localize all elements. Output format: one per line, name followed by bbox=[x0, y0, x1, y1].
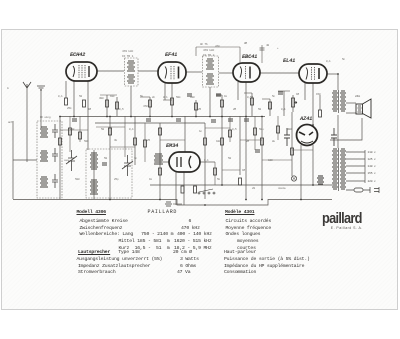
wire bbox=[144, 123, 146, 162]
capacitor C1 bbox=[52, 124, 58, 138]
output transformer T3 bbox=[332, 90, 346, 113]
resistor R16 bbox=[181, 186, 184, 193]
wire bbox=[221, 95, 223, 116]
wire EBC41 cathode long drop bbox=[245, 82, 247, 199]
wire bbox=[221, 116, 223, 185]
wire bbox=[59, 116, 61, 199]
antenna bbox=[23, 82, 31, 88]
junction J10 bbox=[261, 116, 263, 118]
capacitor C5 bbox=[146, 119, 151, 121]
resistor R7 bbox=[195, 103, 198, 110]
wire antenna lead bbox=[26, 88, 28, 162]
wire EM34 leg 2 bbox=[183, 172, 185, 205]
power transformer T4 bbox=[332, 148, 346, 191]
coil L3 bbox=[40, 177, 48, 187]
junction J7 bbox=[209, 116, 211, 118]
tube label EM34 bbox=[166, 144, 178, 149]
wire bbox=[134, 116, 136, 165]
resistor R13 bbox=[109, 128, 112, 135]
capacitor C10 bbox=[278, 92, 283, 94]
resistor R18 bbox=[204, 138, 207, 145]
wire osc bbox=[93, 150, 95, 199]
junction J17 bbox=[261, 199, 263, 201]
wire transformer HT to AZ41 bbox=[337, 115, 339, 148]
resistor R8 bbox=[221, 100, 224, 107]
capacitor C3 bbox=[52, 174, 58, 188]
tuning capacitor CV2 bbox=[122, 155, 133, 176]
component value labels (illegible scan marks) bbox=[58, 94, 62, 99]
tube label EBC41 bbox=[242, 55, 257, 60]
resistor R23 bbox=[69, 128, 72, 135]
resistor R9 bbox=[251, 98, 254, 105]
French column bbox=[226, 219, 272, 224]
wire bbox=[96, 126, 125, 128]
wire speaker top bbox=[346, 102, 356, 104]
capacitor C8 bbox=[228, 119, 233, 121]
resistor R14 bbox=[134, 138, 137, 145]
wire bbox=[195, 100, 197, 116]
spec table header French bbox=[225, 210, 254, 215]
capacitor C13 (filter) bbox=[284, 128, 290, 146]
resistor R29 bbox=[277, 126, 280, 133]
resistor R2 bbox=[83, 100, 86, 107]
coil L1 bbox=[40, 127, 48, 137]
tone control coil bbox=[317, 176, 324, 184]
resistor R26 bbox=[214, 168, 217, 175]
junction J19 bbox=[312, 184, 314, 186]
wire bbox=[244, 92, 252, 94]
capacitor C6 bbox=[176, 119, 181, 121]
capacitors bbox=[72, 92, 337, 165]
resistors bbox=[59, 98, 322, 193]
junction J13 bbox=[245, 199, 247, 201]
wire speaker return bbox=[330, 118, 362, 140]
junction J16 bbox=[204, 204, 206, 206]
wire bbox=[239, 47, 241, 63]
junction J11 bbox=[59, 116, 61, 118]
junction J1 bbox=[73, 116, 75, 118]
fuse F1 bbox=[346, 188, 370, 192]
resistor R22 bbox=[291, 148, 294, 155]
wire ground lead bbox=[40, 89, 42, 128]
junction J8 bbox=[221, 116, 223, 118]
EM34 coupling coil bbox=[154, 154, 163, 164]
wire bbox=[109, 116, 111, 199]
wire bbox=[291, 112, 293, 176]
wire bbox=[60, 129, 88, 131]
oscillator coil L5 bbox=[90, 180, 98, 194]
wire bbox=[195, 47, 197, 56]
junction J3 bbox=[130, 116, 132, 118]
tuning capacitor CV1 bbox=[66, 150, 77, 171]
wire bbox=[262, 98, 270, 100]
junction J22 bbox=[312, 124, 314, 126]
wire screen bus bbox=[95, 122, 205, 124]
junction J9 bbox=[245, 116, 247, 118]
wire EBC41 grid stub bbox=[237, 82, 239, 100]
resistor R25 bbox=[144, 140, 147, 147]
resistor R10 bbox=[269, 102, 272, 109]
wire mains tap 220V bbox=[346, 180, 365, 182]
wire bbox=[216, 94, 222, 96]
resistor R17 bbox=[194, 186, 197, 193]
wire EF41 cathode drop bbox=[171, 83, 173, 116]
tube EF41 bbox=[158, 62, 186, 83]
resistor R6 bbox=[171, 98, 174, 105]
wire bbox=[116, 97, 118, 116]
wire EL41 to AZ41 bbox=[312, 83, 314, 125]
wire AVC top line bbox=[196, 45, 265, 63]
wire bbox=[100, 94, 117, 96]
junction J4 bbox=[149, 116, 151, 118]
wire bbox=[222, 169, 240, 171]
wire bbox=[277, 116, 279, 140]
wire bbox=[269, 99, 271, 116]
wire EL41 grid stub bbox=[304, 83, 306, 100]
resistor R28 bbox=[254, 128, 257, 135]
spec table header brand bbox=[148, 210, 178, 215]
wire bbox=[79, 116, 81, 142]
resistor R21 bbox=[261, 138, 264, 145]
resistor R5 bbox=[149, 100, 152, 107]
resistor R19 bbox=[221, 138, 224, 145]
oscillator section dashed box bbox=[86, 149, 132, 198]
wire bbox=[292, 95, 294, 112]
paillard logo bbox=[322, 213, 371, 231]
potentiometer P1 (volume) bbox=[292, 98, 298, 107]
capacitor C15 bbox=[102, 163, 107, 165]
wire bbox=[262, 159, 292, 161]
capacitor C16 bbox=[255, 150, 260, 152]
resistor R11 bbox=[319, 110, 322, 117]
wire bbox=[251, 93, 253, 116]
wire bbox=[240, 139, 262, 141]
wire bbox=[204, 123, 206, 199]
pickup coil near table bbox=[165, 202, 182, 206]
capacitor C9 bbox=[244, 119, 249, 121]
capacitor C11 bbox=[216, 94, 221, 96]
spec table header German bbox=[77, 210, 106, 215]
switch contacts bbox=[198, 189, 215, 194]
junction J18 bbox=[300, 199, 302, 201]
wire heater bus bbox=[150, 184, 333, 186]
junction J15 bbox=[109, 199, 111, 201]
wire bbox=[205, 127, 230, 129]
junction J5 bbox=[171, 116, 173, 118]
wire bbox=[184, 116, 186, 152]
wire bbox=[278, 90, 290, 92]
wire bbox=[140, 96, 150, 98]
IF transformer T2 bbox=[203, 56, 219, 87]
wire bbox=[261, 45, 263, 63]
wire bbox=[239, 116, 241, 175]
wire bbox=[283, 91, 285, 116]
junction J20 bbox=[221, 184, 223, 186]
tube EM34 bbox=[169, 152, 200, 172]
antenna coil box bbox=[37, 121, 62, 198]
wire EM34 output bbox=[199, 161, 215, 163]
resistor R24 bbox=[79, 132, 82, 139]
wire speaker bottom bbox=[346, 112, 356, 114]
wire ECH42 triode drop to oscillator bbox=[87, 81, 89, 150]
wire ground bus bbox=[13, 200, 332, 206]
mains plug bbox=[370, 187, 379, 193]
wire AZ41 filament drop bbox=[312, 145, 314, 185]
resistor R20 bbox=[239, 178, 242, 185]
wire EF41 to IFT2 bbox=[186, 71, 202, 73]
value labels sprinkled bbox=[122, 49, 133, 59]
wire EF41 grid stub bbox=[164, 83, 166, 100]
wire IFT2 secondary drop bbox=[209, 87, 211, 116]
wire bbox=[292, 149, 313, 151]
capacitor C12 bbox=[187, 94, 192, 96]
wire bbox=[124, 116, 126, 157]
wire EM34 leg 1 bbox=[175, 172, 177, 205]
IF transformer T1 bbox=[125, 58, 139, 86]
junction J14 bbox=[159, 199, 161, 201]
wire bbox=[160, 139, 185, 141]
oscillator coil L4 bbox=[66, 150, 133, 199]
wire mains selector bus bbox=[364, 150, 366, 183]
wire bbox=[319, 95, 321, 110]
wire ECH42 grid drop bbox=[73, 81, 75, 116]
wire bbox=[214, 162, 216, 185]
wire AZ41 cathode drop bbox=[300, 145, 302, 199]
wire mains tap 140V bbox=[346, 165, 365, 167]
dial lamp bbox=[291, 176, 296, 181]
junction J12 bbox=[109, 116, 111, 118]
wire bbox=[261, 116, 263, 199]
tube label EL41 bbox=[283, 59, 295, 64]
wire IFT1 secondary drop bbox=[130, 86, 132, 116]
resistor R27 bbox=[229, 130, 232, 137]
wire EBC41 to EL41 bbox=[259, 72, 299, 74]
wire output transformer primary bbox=[337, 74, 339, 90]
wire HT bus bbox=[60, 116, 265, 118]
wire bbox=[163, 99, 172, 101]
wire ECH42 cathode stub bbox=[65, 81, 67, 98]
capacitor C4 bbox=[72, 119, 77, 121]
capacitor C7 bbox=[211, 120, 216, 122]
wire bbox=[149, 97, 151, 116]
junction J21 bbox=[337, 73, 339, 75]
capacitor C17 bbox=[260, 48, 265, 50]
wire left bus tie bbox=[13, 159, 37, 161]
resistor R15 bbox=[159, 168, 162, 175]
resistors extra bbox=[69, 126, 280, 175]
wire left vertical bus bbox=[12, 121, 14, 199]
resistor R1 bbox=[65, 98, 68, 105]
capacitor C2 bbox=[52, 148, 58, 162]
values column bbox=[189, 219, 192, 224]
wire bbox=[159, 123, 161, 199]
wire bbox=[254, 116, 256, 150]
resistor R12 bbox=[59, 138, 62, 145]
tube label AZ41 bbox=[300, 117, 312, 122]
tube label EF41 bbox=[165, 53, 177, 58]
resistor R3 bbox=[106, 100, 109, 107]
ground bbox=[37, 86, 45, 90]
wire IFT2 to EBC41 bbox=[219, 72, 233, 74]
junction J2 bbox=[106, 116, 108, 118]
coil L2 bbox=[40, 151, 48, 161]
wire mains tap 155V bbox=[346, 172, 365, 174]
tube label ECH42 bbox=[70, 53, 85, 58]
wire EL41 to output transformer bbox=[327, 73, 338, 75]
wire EM34 input bbox=[154, 161, 169, 163]
wire mains tap 110V bbox=[346, 151, 365, 153]
wire IFT1 to EF41 bbox=[138, 70, 158, 72]
German column bbox=[80, 219, 128, 224]
tube ECH42 bbox=[66, 62, 97, 81]
tube AZ41 bbox=[297, 125, 318, 146]
wire bbox=[229, 116, 231, 142]
tube EL41 bbox=[299, 64, 327, 83]
wire mains tap 125V bbox=[346, 158, 365, 160]
additional wiring mesh bbox=[60, 91, 313, 185]
wire bbox=[106, 95, 108, 116]
resistor R30 bbox=[159, 128, 162, 135]
wire plate bus ECH42 to IFT1 bbox=[97, 70, 124, 72]
wire bbox=[110, 146, 135, 148]
resistor R4 bbox=[116, 102, 119, 109]
speaker LS1 bbox=[356, 99, 371, 118]
junction J6 bbox=[195, 116, 197, 118]
tube EBC41 bbox=[233, 63, 260, 82]
wire bbox=[69, 116, 71, 152]
capacitor C14 (filter) bbox=[331, 128, 337, 146]
